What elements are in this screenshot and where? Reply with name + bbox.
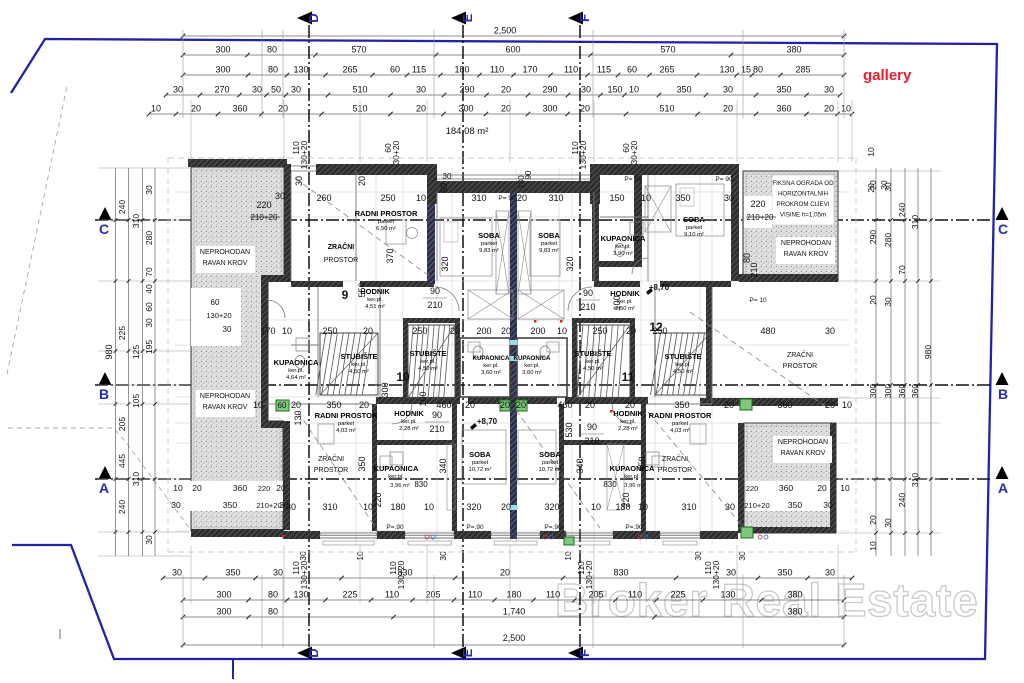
svg-text:210: 210 (429, 424, 444, 434)
svg-text:9,10 m²: 9,10 m² (684, 232, 704, 238)
svg-text:parket: parket (542, 460, 559, 466)
svg-text:290: 290 (459, 85, 474, 95)
svg-text:30: 30 (223, 325, 232, 334)
bed upper-right soba (676, 184, 724, 236)
dimension row 3 bottom (183, 616, 844, 618)
svg-text:10: 10 (591, 502, 601, 512)
svg-text:10,72 m²: 10,72 m² (469, 467, 492, 473)
svg-text:10: 10 (253, 400, 263, 410)
svg-text:220: 220 (256, 200, 271, 210)
wall east side unit 12 lower (706, 287, 712, 406)
desk radni prostor upper (386, 220, 406, 244)
svg-text:130+20: 130+20 (396, 560, 406, 589)
svg-text:FIKSNA OGRADA OD: FIKSNA OGRADA OD (772, 180, 834, 187)
dimension row total 2500 top (183, 35, 844, 37)
svg-text:130+20: 130+20 (299, 560, 309, 589)
svg-text:P=.90: P=.90 (544, 524, 562, 531)
bottom window sills (320, 533, 377, 535)
bed upper-left soba (440, 218, 492, 276)
svg-text:10,72 m²: 10,72 m² (539, 467, 562, 473)
svg-text:RADNI PROSTOR: RADNI PROSTOR (315, 411, 378, 420)
svg-text:210+20: 210+20 (744, 501, 769, 510)
bath fixtures center (468, 342, 480, 352)
extension lines bottom (182, 575, 184, 648)
axis line F vertical (579, 25, 581, 648)
svg-text:30: 30 (724, 193, 734, 203)
svg-text:10: 10 (563, 551, 573, 561)
svg-text:285: 285 (795, 65, 810, 75)
svg-text:20: 20 (625, 400, 635, 410)
svg-text:9,83 m²: 9,83 m² (539, 248, 559, 254)
dimension row C top (183, 74, 844, 76)
svg-text:SOBA: SOBA (538, 231, 560, 240)
svg-text:170: 170 (522, 65, 537, 75)
svg-text:ker.pl.: ker.pl. (351, 362, 367, 368)
svg-text:60: 60 (390, 65, 400, 75)
svg-text:240: 240 (117, 500, 127, 514)
svg-text:110: 110 (564, 65, 578, 75)
axis line C horizontal (95, 219, 990, 221)
svg-text:ZRAČNI: ZRAČNI (787, 350, 813, 359)
light reference lines vertical (355, 168, 357, 545)
svg-text:50: 50 (271, 85, 281, 95)
svg-text:20: 20 (450, 326, 460, 336)
kupaonica center boxes (460, 338, 510, 397)
svg-text:300: 300 (458, 104, 473, 114)
axis marker B left (99, 372, 112, 385)
svg-text:60: 60 (211, 298, 220, 307)
white band right roof A axis (746, 481, 836, 511)
svg-text:PROSTOR: PROSTOR (783, 363, 818, 370)
lower soba furniture (462, 430, 506, 484)
svg-text:4,50 m²: 4,50 m² (673, 369, 693, 375)
svg-text:15: 15 (741, 65, 751, 75)
dimension row total 2500 bottom (183, 644, 844, 646)
svg-text:PROKROM CIJEVI: PROKROM CIJEVI (777, 201, 830, 208)
white band left roof A axis (189, 481, 286, 511)
svg-text:11: 11 (622, 370, 635, 384)
svg-text:80: 80 (268, 65, 278, 75)
svg-text:RAVAN KROV: RAVAN KROV (784, 251, 829, 258)
svg-text:ker.pl.: ker.pl. (388, 474, 404, 480)
svg-text:250: 250 (380, 193, 395, 203)
axis line E vertical (462, 25, 464, 648)
diagonal dashed center (516, 410, 600, 528)
svg-text:350: 350 (788, 500, 802, 510)
recess wall center (434, 181, 594, 193)
svg-text:115: 115 (412, 65, 426, 75)
svg-text:4,50 m²: 4,50 m² (349, 369, 369, 375)
svg-text:30: 30 (824, 85, 834, 95)
svg-text:A: A (998, 480, 1008, 496)
svg-text:510: 510 (659, 104, 674, 114)
svg-text:10: 10 (424, 502, 434, 512)
staircase 11 center-right (577, 325, 630, 398)
staircase unit 9 (320, 333, 378, 395)
svg-text:ker.pl.: ker.pl. (483, 363, 499, 369)
svg-text:E: E (460, 13, 475, 22)
svg-text:10: 10 (841, 104, 851, 114)
svg-text:NEPROHODAN: NEPROHODAN (200, 249, 250, 256)
svg-text:10: 10 (363, 502, 373, 512)
svg-text:20: 20 (868, 515, 878, 525)
svg-text:C: C (998, 221, 1008, 237)
svg-text:20: 20 (276, 483, 286, 493)
svg-text:30: 30 (294, 176, 304, 186)
svg-text:parket: parket (541, 241, 558, 247)
svg-text:80: 80 (742, 253, 752, 263)
svg-text:310: 310 (131, 214, 141, 228)
svg-text:HORIZONTALNIH: HORIZONTALNIH (778, 191, 828, 198)
svg-text:4,51 m²: 4,51 m² (365, 304, 385, 310)
svg-text:30: 30 (825, 568, 835, 578)
svg-text:9,83 m²: 9,83 m² (479, 248, 499, 254)
svg-text:300: 300 (215, 65, 230, 75)
wall right unit lower y398 (700, 398, 838, 406)
outer wall top segment left unit (316, 164, 434, 175)
svg-text:200: 200 (530, 326, 545, 336)
svg-text:300: 300 (216, 590, 231, 600)
svg-text:90: 90 (432, 410, 442, 420)
svg-text:270: 270 (214, 85, 229, 95)
svg-text:205: 205 (117, 417, 127, 431)
svg-text:30: 30 (144, 318, 154, 328)
window marker circles (425, 535, 429, 539)
svg-text:280: 280 (883, 233, 893, 247)
svg-text:10: 10 (868, 541, 878, 551)
wall unit12 west below recess (592, 192, 599, 281)
axis marker F top (568, 12, 583, 25)
staircase 10 center-left (408, 325, 455, 398)
svg-text:4,03 m²: 4,03 m² (336, 428, 356, 434)
svg-text:130: 130 (293, 590, 308, 600)
svg-text:20: 20 (501, 502, 511, 512)
tall closet lower left (447, 444, 455, 510)
svg-text:parket: parket (686, 225, 703, 231)
svg-text:STUBIŠTE: STUBIŠTE (340, 352, 377, 361)
svg-text:980: 980 (104, 344, 114, 359)
svg-text:C: C (99, 221, 109, 237)
svg-text:250: 250 (592, 326, 607, 336)
svg-text:RAVAN KROV: RAVAN KROV (203, 404, 248, 411)
svg-text:HODNIK: HODNIK (394, 409, 424, 418)
svg-text:210+20: 210+20 (256, 501, 281, 510)
svg-text:350: 350 (223, 500, 237, 510)
white box under label bottom-right (773, 436, 832, 463)
wall right of unit 12 (731, 164, 739, 281)
svg-text:9: 9 (342, 288, 349, 302)
svg-text:10: 10 (866, 147, 876, 157)
svg-text:10: 10 (629, 85, 639, 95)
svg-text:ker.pl.: ker.pl. (420, 359, 436, 365)
svg-text:ker.pl.: ker.pl. (624, 474, 640, 480)
svg-text:KUPAONICA: KUPAONICA (610, 464, 655, 473)
axis line D vertical (308, 25, 310, 648)
svg-text:205: 205 (588, 590, 603, 600)
svg-text:380: 380 (787, 607, 802, 617)
svg-text:30: 30 (273, 568, 283, 578)
svg-text:300: 300 (215, 45, 230, 55)
svg-text:150: 150 (609, 193, 624, 203)
svg-text:20: 20 (357, 176, 367, 186)
svg-text:6,50 m²: 6,50 m² (376, 226, 396, 232)
svg-text:20: 20 (363, 326, 373, 336)
svg-text:VISINE h=1,05m: VISINE h=1,05m (780, 212, 826, 219)
svg-text:A: A (99, 480, 109, 496)
svg-text:20: 20 (580, 104, 590, 114)
bathroom fixtures (296, 338, 309, 351)
svg-text:150: 150 (607, 85, 622, 95)
svg-text:90: 90 (524, 170, 533, 179)
svg-text:290: 290 (868, 230, 878, 244)
svg-text:20: 20 (465, 400, 475, 410)
svg-text:210: 210 (584, 436, 599, 446)
svg-text:80: 80 (753, 65, 763, 75)
svg-text:P=.90: P=.90 (466, 524, 484, 531)
svg-text:10: 10 (638, 502, 648, 512)
white box under label bottom-left (196, 390, 255, 417)
svg-text:550: 550 (357, 282, 367, 297)
svg-text:290: 290 (542, 85, 557, 95)
corridor wall right y281 (594, 281, 640, 287)
svg-text:P=.90: P=.90 (386, 524, 404, 531)
svg-text:340: 340 (575, 458, 585, 473)
svg-text:60: 60 (278, 401, 287, 410)
svg-text:3,90 m²: 3,90 m² (613, 251, 633, 257)
lower room walls vertical (452, 404, 457, 531)
svg-text:100: 100 (418, 391, 428, 406)
svg-text:110: 110 (490, 65, 504, 75)
svg-text:ker.pl.: ker.pl. (585, 359, 601, 365)
svg-text:30: 30 (279, 500, 289, 510)
svg-text:530: 530 (564, 422, 574, 437)
staircase unit 12 (655, 333, 710, 395)
wardrobe X-box pair above center kupaonica (468, 290, 513, 319)
svg-text:445: 445 (117, 454, 127, 468)
svg-text:2,28 m²: 2,28 m² (399, 426, 419, 432)
svg-text:30: 30 (737, 551, 747, 561)
svg-text:250: 250 (322, 326, 337, 336)
svg-text:110: 110 (385, 590, 399, 600)
svg-text:10: 10 (557, 326, 567, 336)
svg-text:90: 90 (583, 288, 593, 298)
left dimension columns (115, 168, 117, 556)
svg-text:310: 310 (548, 193, 563, 203)
svg-text:70: 70 (897, 265, 907, 275)
svg-text:10: 10 (842, 400, 852, 410)
svg-text:PROSTOR: PROSTOR (314, 467, 349, 474)
svg-text:350: 350 (776, 85, 791, 95)
svg-text:80: 80 (268, 607, 278, 617)
wall jog west 1 (261, 275, 291, 282)
svg-text:110: 110 (546, 590, 560, 600)
flat roof stipple top-left NEPROHODAN RAVAN KROV (191, 167, 284, 530)
svg-text:30: 30 (443, 172, 452, 181)
svg-text:265: 265 (659, 65, 674, 75)
svg-text:parket: parket (338, 421, 355, 427)
svg-text:570: 570 (351, 45, 366, 55)
recess balcony rail lines (437, 174, 590, 176)
svg-text:115: 115 (597, 65, 611, 75)
svg-text:30: 30 (823, 500, 833, 510)
svg-text:30: 30 (693, 551, 703, 561)
svg-text:RADNI PROSTOR: RADNI PROSTOR (355, 209, 418, 218)
svg-text:4,50 m²: 4,50 m² (418, 366, 438, 372)
axis marker A right (996, 466, 1009, 479)
svg-text:70: 70 (144, 267, 154, 277)
svg-text:+8,70: +8,70 (477, 417, 498, 426)
svg-text:180: 180 (506, 590, 521, 600)
svg-text:360: 360 (232, 104, 247, 114)
dimension row 1 bottom (163, 577, 852, 579)
svg-text:130: 130 (293, 65, 308, 75)
svg-text:110: 110 (468, 590, 482, 600)
svg-text:225: 225 (117, 326, 127, 340)
svg-text:2,28 m²: 2,28 m² (618, 426, 638, 432)
svg-text:360: 360 (897, 384, 907, 398)
terrain dashed line mid-left (8, 428, 190, 529)
svg-text:310: 310 (131, 472, 141, 486)
svg-text:350: 350 (777, 568, 792, 578)
svg-text:280: 280 (144, 231, 154, 245)
svg-text:300: 300 (542, 104, 557, 114)
white text box FIKSNA (772, 175, 834, 225)
svg-text:300: 300 (380, 382, 390, 397)
bed center-right soba (530, 220, 560, 276)
svg-text:320: 320 (440, 256, 450, 271)
svg-text:40: 40 (144, 284, 154, 294)
svg-text:ZRAČNI: ZRAČNI (318, 454, 344, 463)
svg-text:310: 310 (910, 473, 920, 487)
svg-text:20: 20 (626, 326, 636, 336)
svg-text:ZRAČNI: ZRAČNI (662, 454, 688, 463)
svg-text:30: 30 (883, 297, 893, 307)
svg-text:100: 100 (612, 295, 622, 310)
svg-text:60: 60 (144, 302, 154, 312)
svg-text:P=.90: P=.90 (625, 524, 643, 531)
svg-text:110: 110 (628, 590, 642, 600)
svg-text:360: 360 (777, 400, 792, 410)
svg-text:20: 20 (723, 104, 733, 114)
corridor wall left y281 (291, 281, 343, 287)
svg-text:510: 510 (352, 85, 367, 95)
svg-text:SOBA: SOBA (469, 450, 491, 459)
svg-text:130+20: 130+20 (299, 140, 309, 169)
svg-text:480: 480 (760, 326, 775, 336)
svg-text:20: 20 (516, 400, 526, 410)
svg-text:20: 20 (824, 104, 834, 114)
svg-text:20: 20 (868, 295, 878, 305)
svg-text:30: 30 (438, 551, 448, 561)
axis marker E top (451, 12, 466, 25)
svg-text:20: 20 (500, 568, 510, 578)
dimension row D top (166, 94, 840, 96)
axis marker C left (99, 207, 112, 220)
svg-text:3,96 m²: 3,96 m² (624, 483, 644, 489)
svg-text:30: 30 (144, 185, 154, 195)
svg-text:225: 225 (342, 590, 357, 600)
svg-text:30: 30 (725, 502, 735, 512)
svg-text:parket: parket (672, 421, 689, 427)
zracni prostor dashed diagonal right (690, 312, 828, 408)
svg-text:360: 360 (779, 483, 793, 493)
svg-text:4,03 m²: 4,03 m² (670, 428, 690, 434)
svg-text:30: 30 (825, 326, 835, 336)
svg-text:830: 830 (414, 480, 428, 489)
svg-text:gallery: gallery (863, 67, 912, 84)
mid wall y397 segments (376, 397, 460, 404)
svg-text:20: 20 (501, 85, 511, 95)
svg-text:20: 20 (517, 193, 527, 203)
flat roof stipple top-right (743, 171, 838, 281)
red marks (534, 320, 537, 323)
svg-text:180: 180 (390, 502, 405, 512)
svg-text:360: 360 (910, 384, 920, 398)
svg-text:20: 20 (817, 483, 827, 493)
svg-text:300: 300 (216, 607, 231, 617)
svg-text:980: 980 (923, 345, 933, 359)
svg-text:F: F (577, 649, 592, 657)
svg-text:240: 240 (897, 493, 907, 507)
wall bottom of left roof (191, 529, 284, 537)
svg-text:P= 90: P= 90 (498, 195, 516, 202)
svg-text:D: D (306, 13, 321, 22)
axis marker D bottom (297, 647, 312, 660)
svg-text:30: 30 (172, 568, 182, 578)
light reference lines horizontal (175, 191, 850, 193)
svg-text:300: 300 (883, 384, 893, 398)
zracni prostor dashed diagonal lower-right (648, 412, 744, 528)
svg-text:220: 220 (750, 199, 765, 209)
svg-text:P= 90: P= 90 (624, 176, 642, 183)
svg-text:20: 20 (501, 326, 511, 336)
svg-text:220: 220 (258, 484, 271, 493)
svg-text:250: 250 (652, 326, 667, 336)
svg-text:30: 30 (275, 191, 285, 201)
svg-text:220: 220 (746, 484, 759, 493)
svg-text:240: 240 (117, 200, 127, 214)
svg-text:parket: parket (378, 219, 395, 225)
svg-text:30: 30 (144, 535, 154, 545)
svg-text:ker.pl.: ker.pl. (401, 419, 417, 425)
svg-text:30: 30 (416, 85, 426, 95)
wall jog west 2 (261, 421, 290, 428)
svg-text:3,60 m²: 3,60 m² (481, 370, 501, 376)
svg-text:105: 105 (131, 394, 141, 408)
svg-text:195: 195 (144, 340, 154, 354)
wall unit12 kupaonica east (634, 175, 642, 261)
svg-text:4,64 m²: 4,64 m² (286, 375, 306, 381)
axis marker D top (297, 12, 312, 25)
svg-text:460: 460 (557, 400, 572, 410)
svg-text:20: 20 (359, 400, 369, 410)
svg-text:20: 20 (416, 104, 426, 114)
svg-text:320: 320 (565, 256, 575, 271)
bottom-right roof walls (738, 423, 744, 533)
svg-text:ZRAČNI: ZRAČNI (328, 242, 354, 251)
svg-text:10: 10 (416, 193, 426, 203)
svg-text:30: 30 (173, 85, 183, 95)
svg-text:2,500: 2,500 (494, 26, 517, 36)
svg-text:20: 20 (585, 400, 595, 410)
svg-text:220: 220 (621, 492, 631, 507)
svg-text:205: 205 (425, 590, 440, 600)
svg-text:310: 310 (910, 215, 920, 229)
svg-text:STUBIŠTE: STUBIŠTE (409, 349, 446, 358)
svg-text:350: 350 (676, 85, 691, 95)
building envelope dashed (168, 157, 856, 159)
svg-text:4,50 m²: 4,50 m² (583, 366, 603, 372)
